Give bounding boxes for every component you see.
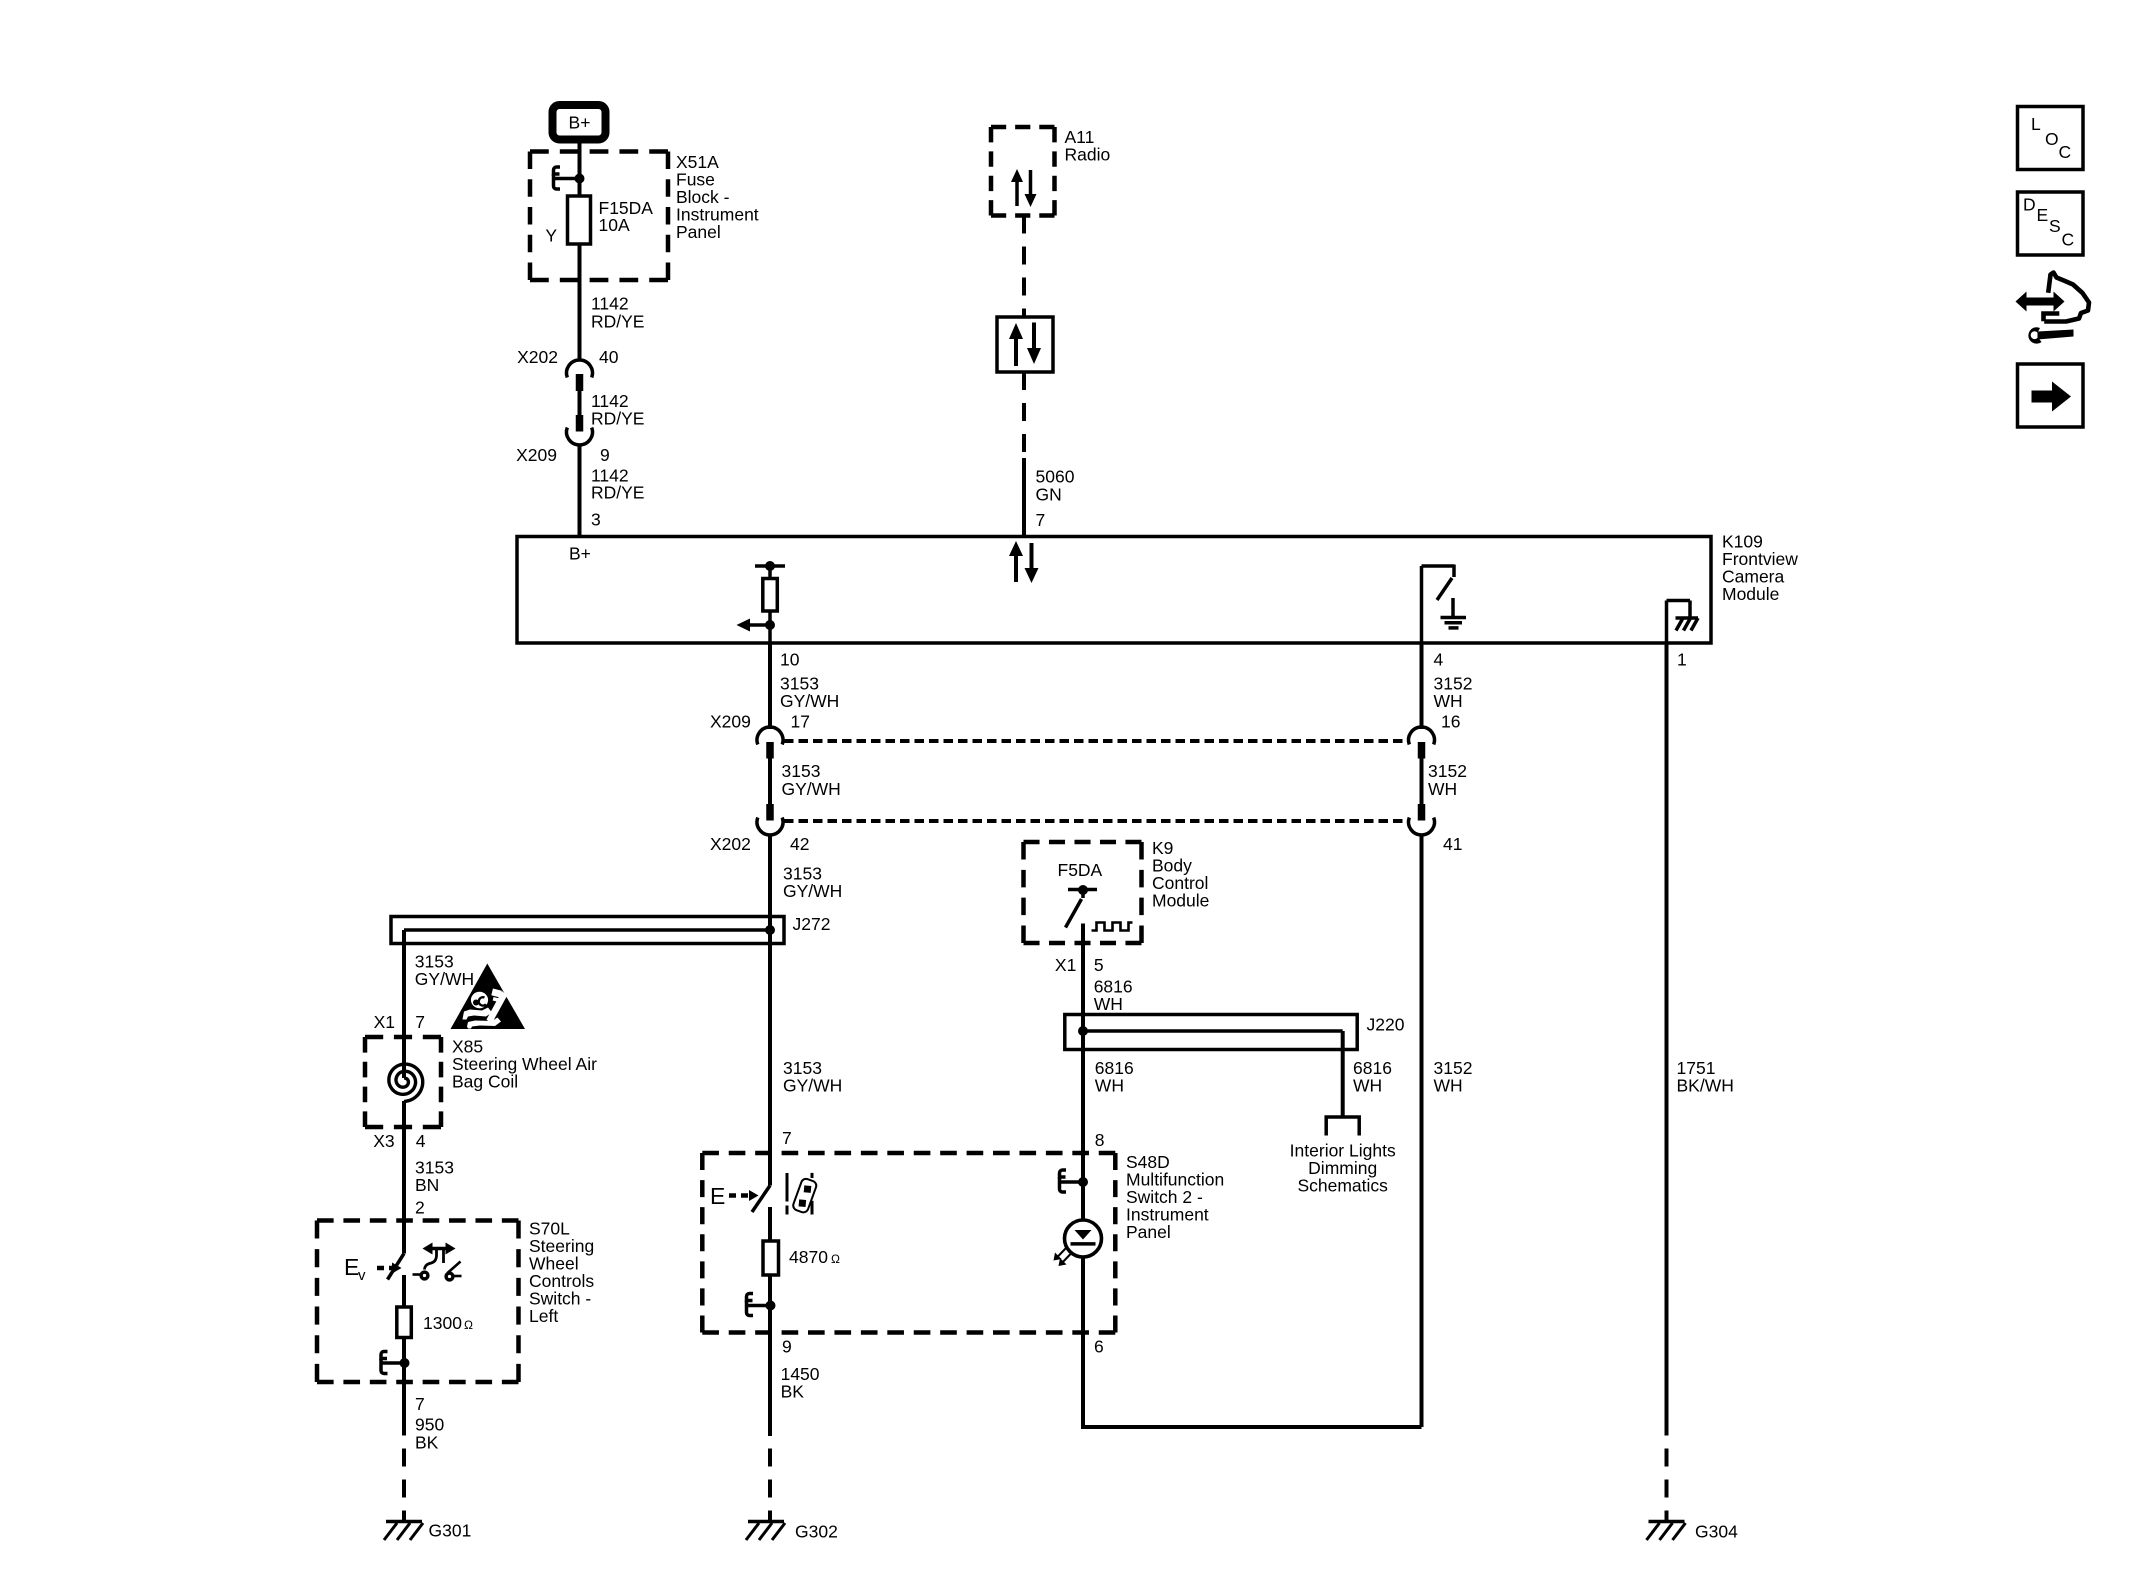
ground G304 <box>1647 1521 1739 1541</box>
svg-text:X209: X209 <box>516 445 557 465</box>
B+ power terminal <box>553 105 606 140</box>
serial data symbol inside A11 <box>1011 169 1037 207</box>
wire 3153 GY/WH from J272 left port <box>404 930 474 1037</box>
volume rocker icon inside S70L <box>413 1243 462 1280</box>
svg-text:Y: Y <box>545 225 557 245</box>
svg-text:G301: G301 <box>429 1520 472 1540</box>
svg-text:BK/WH: BK/WH <box>1677 1075 1734 1095</box>
connector view car and wrench icon <box>2016 273 2090 344</box>
fuse block X51A dashed box <box>530 152 668 281</box>
svg-text:J272: J272 <box>793 914 831 934</box>
svg-text:WH: WH <box>1095 1076 1124 1096</box>
svg-text:S: S <box>2049 216 2061 236</box>
svg-text:4870: 4870 <box>789 1247 828 1267</box>
svg-text:O: O <box>2045 129 2059 149</box>
svg-text:5: 5 <box>1094 955 1104 975</box>
dashed wire radio to gateway box <box>1022 216 1026 318</box>
svg-text:7: 7 <box>1036 510 1046 530</box>
splice pack J272 <box>391 914 830 944</box>
switch blade inside S48D <box>752 1186 770 1242</box>
svg-text:1: 1 <box>1677 650 1687 670</box>
dashed wire to G301 <box>402 1428 406 1522</box>
K9 Body Control Module dashed box <box>1024 842 1142 943</box>
svg-text:8: 8 <box>1095 1130 1105 1150</box>
svg-text:RD/YE: RD/YE <box>591 483 644 503</box>
fuse F15DA 10A <box>545 196 653 245</box>
svg-text:C: C <box>2062 229 2075 249</box>
svg-text:10A: 10A <box>599 215 630 235</box>
svg-text:GN: GN <box>1036 484 1062 504</box>
terminal connector symbol inside fuse block <box>554 167 585 189</box>
inline connector X209 pin 9 <box>516 415 610 465</box>
svg-text:GY/WH: GY/WH <box>415 969 474 989</box>
wire 3153 GY/WH from pin 10 <box>770 643 839 729</box>
svg-text:Radio: Radio <box>1065 145 1111 165</box>
connector X1 pin 5 of K9 <box>1055 955 1104 975</box>
svg-text:2: 2 <box>415 1198 425 1218</box>
connector X3 pin 4 below X85 <box>373 1131 426 1151</box>
wire 3153 GY/WH between X209 and X202 <box>770 759 841 805</box>
svg-text:X209: X209 <box>710 712 751 732</box>
svg-text:WH: WH <box>1434 691 1463 711</box>
svg-text:WH: WH <box>1428 779 1457 799</box>
wire 3152 WH from pin 41 down <box>1420 834 1424 1428</box>
svg-text:WH: WH <box>1353 1076 1382 1096</box>
terminal connector symbol at S48D pin 8 <box>1060 1170 1089 1192</box>
wire 1751 BK/WH from pin 1 <box>1667 643 1734 1428</box>
svg-text:42: 42 <box>790 834 809 854</box>
LOC navigation box <box>2018 107 2084 170</box>
svg-text:J220: J220 <box>1367 1015 1405 1035</box>
wire 3153 GY/WH from X202-42 to J272 <box>770 834 842 917</box>
svg-text:40: 40 <box>599 347 619 367</box>
label X51A Fuse Block - Instrument Panel <box>676 152 759 242</box>
wire 1142 RD/YE between connectors <box>580 391 645 429</box>
wire 3152 WH from pin 4 <box>1422 643 1473 729</box>
wire from S48D pin 6 to 3152 WH wire <box>1083 1333 1422 1428</box>
wire 6816 WH from J220 to S48D pin 8 <box>1083 1015 1134 1183</box>
inline connector X202 pin 42 <box>710 804 809 854</box>
svg-text:Ω: Ω <box>464 1318 473 1332</box>
inline connector X209 pin 16 <box>1409 712 1461 759</box>
svg-text:Ω: Ω <box>831 1252 840 1266</box>
serial data symbol inside gateway box <box>1009 323 1041 367</box>
S48D Multifunction Switch 2 dashed box <box>702 1153 1115 1333</box>
wire B+ to fuse block <box>578 143 582 196</box>
connector X1 pin 7 into X85 <box>374 1012 425 1032</box>
svg-text:17: 17 <box>791 712 810 732</box>
internal chassis ground at K109 pin 1 <box>1667 601 1699 644</box>
dashed connector bridge X209 <box>784 739 1408 743</box>
svg-text:7: 7 <box>415 1394 425 1414</box>
terminal connector symbol lower-left inside S48D <box>747 1275 776 1333</box>
svg-text:7: 7 <box>782 1128 792 1148</box>
svg-text:Bag Coil: Bag Coil <box>452 1071 518 1091</box>
wire 6816 WH from K9 to J220 <box>1083 943 1133 1015</box>
terminal connector symbol inside S70L <box>381 1338 410 1383</box>
inline connector X202 pin 40 <box>517 347 619 391</box>
label K109 Frontview Camera Module <box>1722 532 1798 605</box>
svg-text:F5DA: F5DA <box>1058 860 1103 880</box>
radio A11 dashed box <box>991 127 1055 216</box>
svg-text:E: E <box>710 1183 725 1209</box>
svg-text:4: 4 <box>1434 649 1444 669</box>
next page arrow box <box>2018 364 2084 427</box>
svg-text:L: L <box>2031 114 2041 134</box>
low side driver switch inside K9 <box>1066 885 1098 943</box>
X85 Steering Wheel Air Bag Coil dashed box <box>365 1037 441 1127</box>
svg-text:C: C <box>2059 142 2072 162</box>
airbag caution triangle <box>451 964 526 1030</box>
serial data gateway box <box>997 317 1053 372</box>
pin 9 wire 1450 BK below S48D <box>770 1333 820 1437</box>
svg-text:Module: Module <box>1722 584 1779 604</box>
svg-text:Left: Left <box>529 1306 558 1326</box>
label X85 Steering Wheel Air Bag Coil <box>452 1036 597 1091</box>
internal switch to ground at K109 pin 4 <box>1422 565 1467 644</box>
clockspring coil symbol <box>389 1037 423 1127</box>
svg-text:B+: B+ <box>569 113 591 133</box>
svg-text:BK: BK <box>415 1432 439 1452</box>
svg-text:D: D <box>2023 195 2036 215</box>
svg-text:3: 3 <box>591 509 601 529</box>
K109 Frontview Camera Module box <box>517 537 1711 644</box>
headlamp switch door icon inside S48D <box>787 1173 818 1215</box>
wire 3152 WH between pins 16 and 41 <box>1422 759 1467 805</box>
svg-text:9: 9 <box>782 1336 792 1356</box>
resistor 1300 ohm inside S70L <box>397 1307 473 1338</box>
svg-text:BK: BK <box>781 1381 805 1401</box>
svg-text:GY/WH: GY/WH <box>782 779 841 799</box>
serial data symbol inside K109 at pin 7 <box>1009 541 1039 583</box>
svg-text:X3: X3 <box>373 1131 394 1151</box>
ground G302 <box>746 1521 838 1541</box>
wire 5060 GN into K109 pin 7 <box>1024 458 1075 537</box>
svg-text:Module: Module <box>1152 890 1209 910</box>
svg-text:6: 6 <box>1094 1336 1104 1356</box>
S70L Steering Wheel Controls Switch - Left dashed box <box>317 1221 519 1383</box>
wire X209 to K109 pin 3, label 1142 RD/YE <box>580 444 645 537</box>
DESC navigation box <box>2018 192 2084 255</box>
svg-text:X1: X1 <box>1055 955 1076 975</box>
svg-text:BN: BN <box>415 1175 439 1195</box>
svg-text:G304: G304 <box>1695 1521 1738 1541</box>
label K9 Body Control Module <box>1152 838 1209 911</box>
svg-text:4: 4 <box>416 1131 426 1151</box>
svg-text:RD/YE: RD/YE <box>591 409 644 429</box>
wire 6816 WH from J220 right port <box>1343 1031 1392 1117</box>
svg-text:B+: B+ <box>569 544 591 564</box>
svg-text:10: 10 <box>780 649 800 669</box>
svg-text:16: 16 <box>1441 712 1460 732</box>
pin 7 wire 950 BK below S70L <box>404 1382 444 1452</box>
inline connector X209 pin 17 <box>710 712 810 759</box>
label S70L Steering Wheel Controls Switch - Left <box>529 1219 594 1327</box>
svg-text:RD/YE: RD/YE <box>591 311 644 331</box>
inline connector X202 pin 41 <box>1409 804 1463 854</box>
dashed wire gateway to 5060 GN <box>1022 372 1026 458</box>
svg-text:WH: WH <box>1094 994 1123 1014</box>
wire 3153 GY/WH from J272 to S48D pin 7 <box>770 944 842 1186</box>
dashed wire to G302 <box>768 1435 772 1522</box>
LED indicator inside S48D <box>1054 1182 1102 1333</box>
internal pull-up resistor and driver arrow at K109 pin 10 <box>737 561 786 643</box>
svg-text:7: 7 <box>415 1012 425 1032</box>
wire fuse to X202, label 1142 RD/YE <box>580 244 645 362</box>
resistor 4870 ohm inside S48D <box>763 1241 840 1275</box>
svg-text:Panel: Panel <box>1126 1222 1171 1242</box>
svg-text:41: 41 <box>1443 834 1462 854</box>
switch actuator Ev with dashed link <box>344 1254 402 1284</box>
svg-text:GY/WH: GY/WH <box>780 691 839 711</box>
PWM signal symbol inside K9 <box>1092 923 1133 931</box>
svg-text:1300: 1300 <box>423 1313 462 1333</box>
svg-text:Panel: Panel <box>676 222 721 242</box>
wire 3153 BN pin 2 into S70L <box>404 1127 454 1254</box>
off-page connector to Interior Lights Dimming Schematics <box>1290 1117 1396 1196</box>
dashed connector bridge X202 <box>784 819 1408 823</box>
svg-text:WH: WH <box>1434 1075 1463 1095</box>
svg-text:GY/WH: GY/WH <box>783 1075 842 1095</box>
svg-text:9: 9 <box>600 445 610 465</box>
ground G301 <box>384 1520 471 1540</box>
svg-text:v: v <box>358 1267 366 1284</box>
wire label 3152 WH lower <box>1434 1058 1473 1096</box>
wire through J272 continues <box>768 917 772 944</box>
svg-text:G302: G302 <box>795 1521 838 1541</box>
switch actuator E with dashed link <box>710 1183 759 1209</box>
label A11 Radio <box>1065 127 1111 165</box>
splice pack J220 <box>1065 1015 1405 1050</box>
label S48D Multifunction Switch 2 - Instrument Panel <box>1126 1152 1224 1242</box>
svg-text:Schematics: Schematics <box>1297 1176 1388 1196</box>
svg-text:X202: X202 <box>710 834 751 854</box>
svg-text:X202: X202 <box>517 347 558 367</box>
dashed wire to G304 <box>1665 1428 1669 1522</box>
switch blade inside S70L <box>388 1254 405 1308</box>
svg-text:E: E <box>2037 205 2049 225</box>
svg-text:GY/WH: GY/WH <box>783 881 842 901</box>
svg-text:X1: X1 <box>374 1012 395 1032</box>
